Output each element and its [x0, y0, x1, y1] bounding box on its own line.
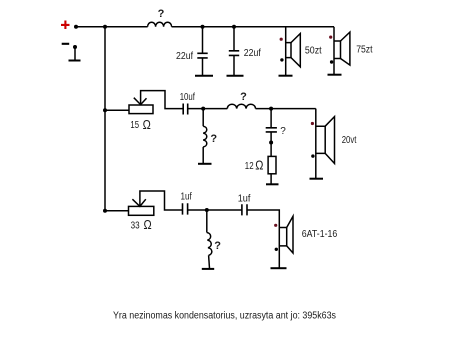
svg-text:6AT-1-16: 6AT-1-16	[302, 229, 338, 240]
svg-text:50zt: 50zt	[305, 46, 322, 57]
svg-text:Ω: Ω	[143, 117, 151, 132]
svg-text:75zt: 75zt	[356, 45, 372, 56]
svg-text:22uf: 22uf	[244, 48, 261, 59]
svg-text:1uf: 1uf	[238, 193, 251, 204]
svg-text:20vt: 20vt	[342, 135, 357, 146]
svg-text:Ω: Ω	[255, 159, 263, 173]
svg-text:33: 33	[131, 221, 140, 232]
svg-text:Ω: Ω	[144, 218, 152, 232]
svg-text:?: ?	[280, 126, 286, 137]
svg-text:?: ?	[158, 8, 165, 20]
svg-text:22uf: 22uf	[176, 51, 193, 62]
svg-text:15: 15	[130, 120, 139, 131]
svg-text:?: ?	[210, 133, 217, 145]
svg-text:Yra nezinomas kondensatorius,: Yra nezinomas kondensatorius, uzrasyta a…	[113, 310, 336, 321]
svg-text:?: ?	[240, 91, 247, 103]
svg-text:1uf: 1uf	[181, 191, 192, 202]
svg-text:12: 12	[245, 161, 254, 172]
svg-text:?: ?	[214, 240, 221, 252]
svg-text:10uf: 10uf	[180, 92, 195, 103]
